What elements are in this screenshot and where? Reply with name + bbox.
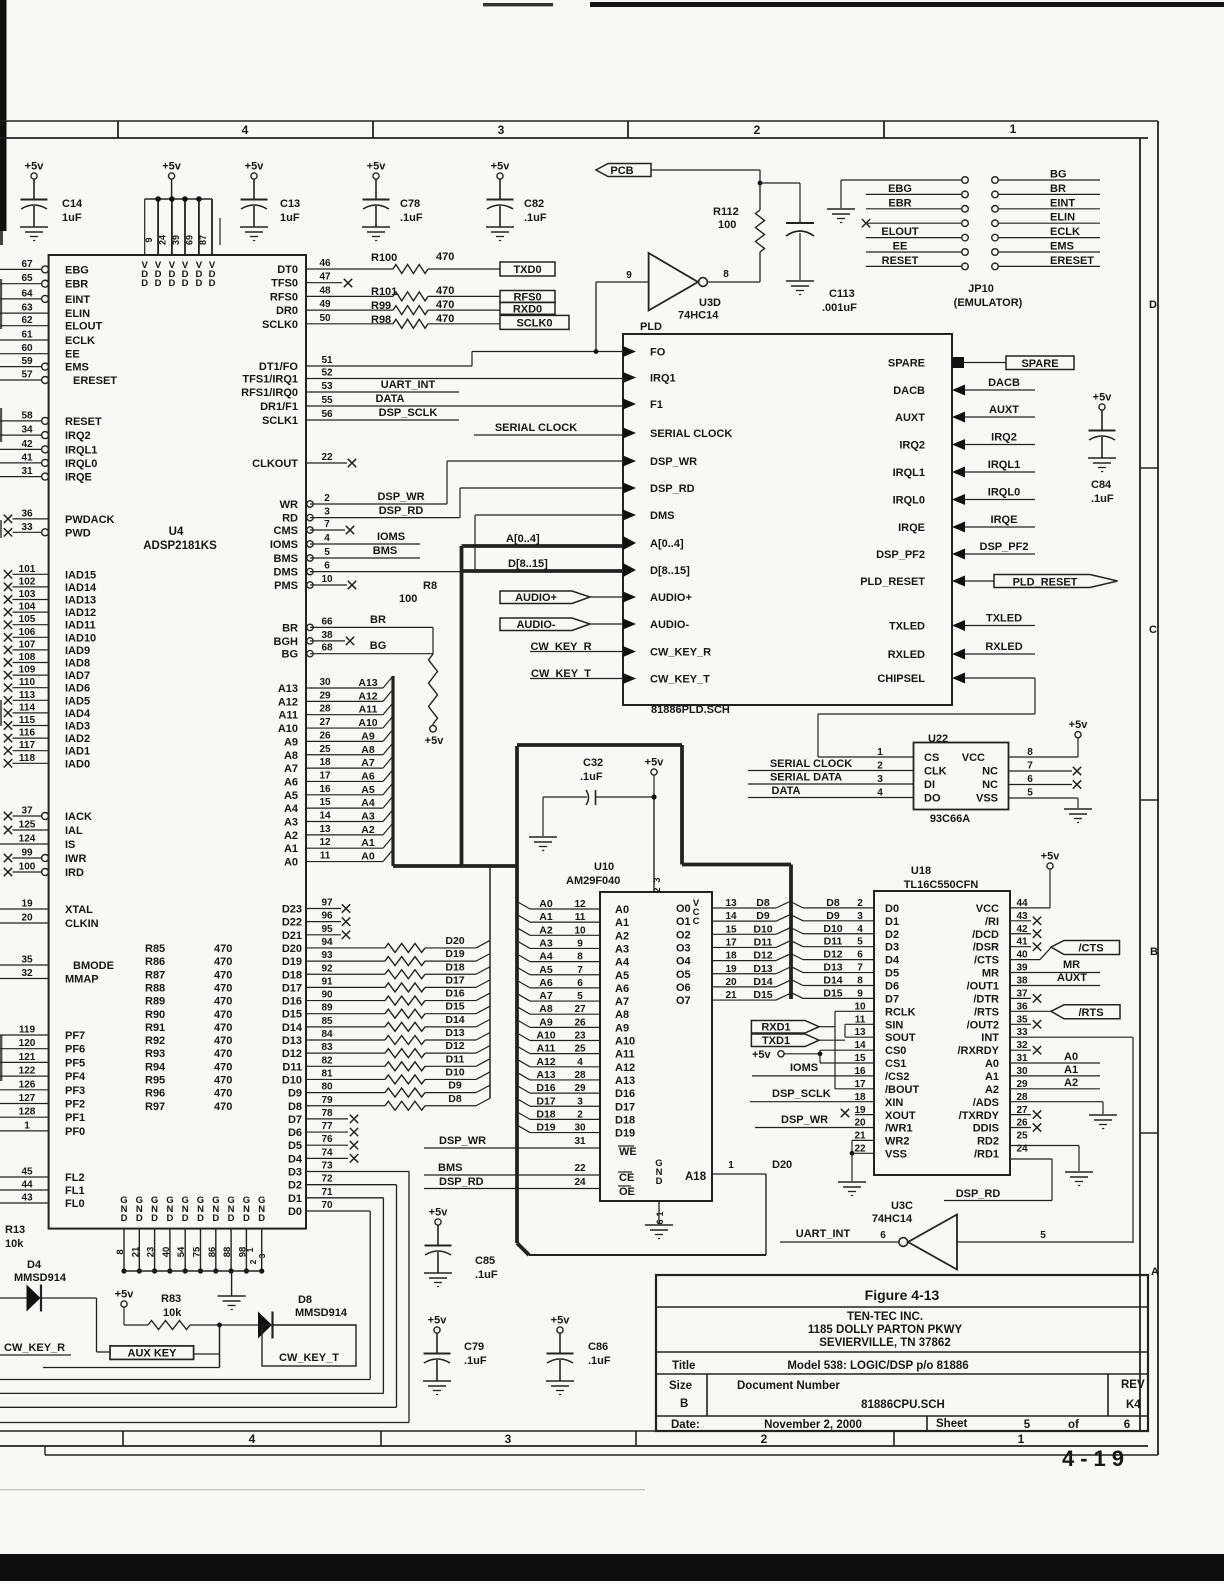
svg-text:A8: A8 — [615, 1009, 629, 1021]
svg-text:D13: D13 — [753, 963, 772, 975]
svg-text:A4: A4 — [284, 803, 299, 815]
svg-text:A8: A8 — [539, 1003, 553, 1015]
svg-text:113: 113 — [19, 690, 36, 701]
svg-text:DSP_WR: DSP_WR — [439, 1135, 486, 1147]
svg-text:A2: A2 — [361, 824, 375, 836]
svg-text:41: 41 — [1016, 937, 1028, 948]
svg-text:UART_INT: UART_INT — [796, 1228, 851, 1240]
svg-text:2: 2 — [857, 898, 863, 909]
svg-text:66: 66 — [321, 616, 333, 627]
svg-text:R86: R86 — [145, 956, 165, 968]
svg-text:XTAL: XTAL — [65, 904, 93, 916]
svg-text:D0: D0 — [885, 903, 899, 915]
svg-text:81886CPU.SCH: 81886CPU.SCH — [861, 1399, 945, 1411]
svg-text:U3D: U3D — [699, 297, 721, 309]
svg-text:DSP_RD: DSP_RD — [650, 483, 695, 495]
svg-text:PF5: PF5 — [65, 1057, 85, 1069]
svg-text:100: 100 — [19, 862, 36, 873]
svg-text:6: 6 — [324, 561, 330, 572]
svg-text:81: 81 — [321, 1068, 333, 1079]
svg-text:5: 5 — [577, 991, 583, 1002]
svg-text:40: 40 — [161, 1247, 172, 1258]
svg-text:R89: R89 — [145, 996, 165, 1008]
svg-text:K4: K4 — [1126, 1399, 1141, 1411]
svg-text:34: 34 — [21, 425, 33, 436]
svg-text:RESET: RESET — [882, 255, 919, 267]
svg-text:CLK: CLK — [924, 766, 947, 778]
svg-text:RXLED: RXLED — [888, 649, 925, 661]
svg-text:A0: A0 — [615, 904, 629, 916]
svg-text:C84: C84 — [1091, 479, 1112, 491]
svg-text:A7: A7 — [615, 996, 629, 1008]
svg-text:O0: O0 — [676, 903, 691, 915]
svg-text:38: 38 — [1016, 975, 1028, 986]
svg-text:D15: D15 — [445, 1001, 464, 1013]
svg-text:NC: NC — [982, 766, 998, 778]
svg-text:D11: D11 — [446, 1053, 465, 1065]
svg-text:A11: A11 — [359, 704, 378, 716]
svg-text:2: 2 — [652, 887, 662, 892]
svg-text:A8: A8 — [284, 750, 298, 762]
svg-text:D: D — [258, 1213, 265, 1224]
svg-text:110: 110 — [19, 677, 36, 688]
svg-text:7: 7 — [857, 963, 863, 974]
svg-text:31: 31 — [21, 466, 33, 477]
svg-text:D: D — [209, 278, 216, 289]
svg-text:65: 65 — [21, 273, 33, 284]
svg-text:IAD6: IAD6 — [65, 683, 90, 695]
svg-text:C: C — [693, 916, 700, 927]
svg-text:A3: A3 — [284, 817, 298, 829]
svg-text:AUX KEY: AUX KEY — [128, 1348, 178, 1360]
svg-text:81886PLD.SCH: 81886PLD.SCH — [651, 704, 730, 716]
svg-text:.1uF: .1uF — [588, 1355, 611, 1367]
svg-text:A11: A11 — [278, 710, 298, 722]
svg-text:O1: O1 — [676, 916, 691, 928]
svg-text:3: 3 — [257, 1253, 267, 1258]
svg-text:D0: D0 — [288, 1206, 302, 1218]
svg-text:IAD0: IAD0 — [65, 758, 90, 770]
svg-text:IACK: IACK — [65, 811, 92, 823]
svg-text:107: 107 — [19, 639, 36, 650]
svg-text:16: 16 — [319, 784, 331, 795]
svg-text:CHIPSEL: CHIPSEL — [877, 673, 925, 685]
svg-text:1uF: 1uF — [62, 212, 82, 224]
svg-text:D: D — [212, 1213, 219, 1224]
svg-text:+5v: +5v — [491, 161, 511, 173]
svg-text:VCC: VCC — [976, 903, 999, 915]
svg-text:94: 94 — [321, 937, 333, 948]
svg-text:470: 470 — [214, 982, 232, 994]
svg-text:/TXRDY: /TXRDY — [959, 1110, 1000, 1122]
svg-text:127: 127 — [19, 1093, 36, 1104]
svg-text:D9: D9 — [288, 1088, 302, 1100]
svg-text:U3C: U3C — [891, 1200, 913, 1212]
svg-text:D10: D10 — [282, 1074, 302, 1086]
svg-text:CW_KEY_T: CW_KEY_T — [650, 674, 710, 686]
svg-text:Date:: Date: — [671, 1419, 700, 1431]
svg-text:/DTR: /DTR — [973, 993, 999, 1005]
svg-text:35: 35 — [1016, 1014, 1028, 1025]
svg-text:D12: D12 — [823, 949, 842, 961]
svg-text:EINT: EINT — [1050, 197, 1075, 209]
svg-text:84: 84 — [321, 1029, 333, 1040]
svg-text:D10: D10 — [445, 1066, 464, 1078]
svg-text:D: D — [1149, 299, 1157, 311]
svg-text:DSP_PF2: DSP_PF2 — [876, 549, 925, 561]
svg-text:24: 24 — [574, 1177, 586, 1188]
svg-text:/OUT2: /OUT2 — [967, 1019, 999, 1031]
svg-text:/RTS: /RTS — [974, 1006, 999, 1018]
svg-text:80: 80 — [321, 1082, 333, 1093]
svg-text:27: 27 — [574, 1004, 586, 1015]
svg-text:124: 124 — [19, 834, 36, 845]
svg-text:22: 22 — [321, 452, 333, 463]
svg-text:23: 23 — [574, 1031, 586, 1042]
svg-text:A1: A1 — [539, 911, 553, 923]
svg-text:MR: MR — [982, 968, 999, 980]
svg-text:VSS: VSS — [976, 793, 998, 805]
svg-text:RFS1/IRQ0: RFS1/IRQ0 — [241, 387, 298, 399]
svg-text:OE: OE — [619, 1186, 635, 1198]
svg-text:CE: CE — [619, 1172, 634, 1184]
svg-text:42: 42 — [1016, 924, 1028, 935]
svg-text:92: 92 — [321, 963, 333, 974]
svg-text:D18: D18 — [536, 1108, 555, 1120]
svg-text:86: 86 — [207, 1247, 218, 1258]
svg-text:MMAP: MMAP — [65, 974, 99, 986]
svg-text:D15: D15 — [823, 987, 842, 999]
svg-text:30: 30 — [319, 677, 331, 688]
svg-text:MMSD914: MMSD914 — [14, 1272, 67, 1284]
svg-text:+5v: +5v — [25, 161, 45, 173]
svg-text:67: 67 — [21, 259, 33, 270]
svg-text:IRQL1: IRQL1 — [988, 459, 1020, 471]
svg-text:/RD1: /RD1 — [974, 1149, 999, 1161]
svg-text:A3: A3 — [539, 937, 553, 949]
svg-text:D: D — [155, 278, 162, 289]
svg-text:22: 22 — [574, 1163, 586, 1174]
svg-text:O3: O3 — [676, 942, 691, 954]
svg-text:A4: A4 — [361, 797, 375, 809]
svg-text:7: 7 — [1027, 761, 1033, 772]
svg-text:79: 79 — [321, 1095, 333, 1106]
svg-text:IRQL0: IRQL0 — [893, 495, 925, 507]
svg-text:A13: A13 — [358, 677, 377, 689]
svg-text:470: 470 — [436, 299, 454, 311]
svg-text:470: 470 — [214, 1035, 232, 1047]
svg-text:10: 10 — [574, 925, 586, 936]
svg-text:A0: A0 — [985, 1058, 999, 1070]
svg-text:D2: D2 — [885, 929, 899, 941]
svg-text:A2: A2 — [1064, 1077, 1078, 1089]
svg-text:A11: A11 — [537, 1043, 556, 1055]
svg-text:D21: D21 — [282, 930, 302, 942]
svg-text:BG: BG — [1050, 169, 1067, 181]
svg-text:/RI: /RI — [985, 916, 999, 928]
svg-text:10: 10 — [321, 574, 333, 585]
svg-text:470: 470 — [214, 1022, 232, 1034]
svg-text:99: 99 — [21, 848, 33, 859]
svg-text:U18: U18 — [911, 865, 931, 877]
svg-text:93: 93 — [321, 950, 333, 961]
svg-text:A7: A7 — [361, 757, 375, 769]
svg-text:R99: R99 — [371, 300, 391, 312]
svg-text:+5v: +5v — [1093, 392, 1113, 404]
svg-text:14: 14 — [725, 911, 737, 922]
svg-text:C32: C32 — [583, 757, 603, 769]
svg-text:13: 13 — [319, 824, 331, 835]
svg-text:SERIAL CLOCK: SERIAL CLOCK — [770, 758, 852, 770]
svg-text:PF7: PF7 — [65, 1030, 85, 1042]
svg-text:D4: D4 — [27, 1259, 42, 1271]
svg-text:45: 45 — [21, 1167, 33, 1178]
svg-text:D4: D4 — [288, 1153, 303, 1165]
svg-text:.1uF: .1uF — [1091, 493, 1114, 505]
svg-text:A6: A6 — [284, 776, 298, 788]
svg-text:120: 120 — [19, 1038, 36, 1049]
svg-text:48: 48 — [319, 285, 331, 296]
svg-text:EINT: EINT — [65, 294, 90, 306]
svg-text:4-19: 4-19 — [1062, 1446, 1130, 1471]
svg-text:IAD15: IAD15 — [65, 569, 96, 581]
svg-text:+5v: +5v — [162, 161, 182, 173]
svg-text:R97: R97 — [145, 1101, 165, 1113]
svg-text:96: 96 — [321, 911, 333, 922]
svg-text:D9: D9 — [756, 910, 770, 922]
svg-text:SPARE: SPARE — [1021, 358, 1058, 370]
svg-text:DI: DI — [924, 779, 935, 791]
svg-text:32: 32 — [21, 968, 33, 979]
svg-text:IRQ2: IRQ2 — [899, 440, 925, 452]
svg-text:EBG: EBG — [65, 264, 89, 276]
svg-text:90: 90 — [321, 990, 333, 1001]
svg-text:33: 33 — [1016, 1027, 1028, 1038]
svg-text:+5v: +5v — [752, 1049, 772, 1061]
svg-text:IRQL0: IRQL0 — [988, 487, 1020, 499]
svg-text:/DCD: /DCD — [972, 929, 999, 941]
svg-text:56: 56 — [321, 409, 333, 420]
svg-text:3: 3 — [877, 774, 883, 785]
svg-text:9: 9 — [577, 938, 583, 949]
svg-text:IRQE: IRQE — [65, 472, 92, 484]
svg-text:4: 4 — [242, 123, 249, 137]
svg-text:TFS0: TFS0 — [271, 278, 298, 290]
svg-text:/BOUT: /BOUT — [885, 1084, 920, 1096]
svg-text:58: 58 — [21, 410, 33, 421]
svg-text:/CS2: /CS2 — [885, 1071, 909, 1083]
svg-text:21: 21 — [130, 1246, 141, 1257]
svg-text:93C66A: 93C66A — [930, 813, 970, 825]
svg-text:36: 36 — [1016, 1001, 1028, 1012]
svg-text:121: 121 — [19, 1052, 36, 1063]
svg-text:AUDIO+: AUDIO+ — [650, 592, 692, 604]
svg-text:RCLK: RCLK — [885, 1006, 916, 1018]
svg-text:EMS: EMS — [65, 362, 89, 374]
svg-text:ADSP2181KS: ADSP2181KS — [143, 540, 217, 552]
svg-text:D13: D13 — [445, 1027, 464, 1039]
svg-text:20: 20 — [725, 977, 737, 988]
svg-text:/DSR: /DSR — [973, 942, 999, 954]
svg-text:1: 1 — [24, 1120, 30, 1131]
svg-text:D14: D14 — [282, 1022, 303, 1034]
svg-text:D9: D9 — [826, 910, 840, 922]
svg-text:of: of — [1068, 1419, 1079, 1431]
svg-text:61: 61 — [21, 330, 33, 341]
svg-text:TXLED: TXLED — [889, 621, 925, 633]
svg-text:CW_KEY_R: CW_KEY_R — [650, 647, 711, 659]
svg-text:R90: R90 — [145, 1009, 165, 1021]
svg-text:6: 6 — [880, 1230, 886, 1241]
svg-text:9: 9 — [144, 237, 154, 242]
svg-text:35: 35 — [21, 955, 33, 966]
svg-text:DSP_RD: DSP_RD — [439, 1176, 484, 1188]
svg-text:53: 53 — [321, 381, 333, 392]
svg-text:IAD2: IAD2 — [65, 733, 90, 745]
svg-text:+5v: +5v — [425, 735, 445, 747]
svg-text:C86: C86 — [588, 1341, 608, 1353]
svg-text:D8: D8 — [298, 1294, 312, 1306]
svg-text:F1: F1 — [650, 399, 663, 411]
svg-text:D12: D12 — [445, 1040, 464, 1052]
svg-text:17: 17 — [725, 937, 737, 948]
svg-text:5: 5 — [1024, 1419, 1031, 1431]
svg-text:D4: D4 — [885, 955, 900, 967]
svg-text:87: 87 — [198, 235, 208, 245]
svg-text:74HC14: 74HC14 — [678, 310, 719, 322]
svg-text:O5: O5 — [676, 969, 691, 981]
svg-text:31: 31 — [574, 1136, 586, 1147]
svg-text:D23: D23 — [282, 904, 302, 916]
svg-text:.001uF: .001uF — [822, 302, 857, 314]
svg-text:IAD4: IAD4 — [65, 708, 91, 720]
svg-text:+5v: +5v — [367, 161, 387, 173]
svg-text:D20: D20 — [282, 943, 302, 955]
svg-text:3: 3 — [324, 507, 330, 518]
svg-text:63: 63 — [21, 303, 33, 314]
svg-text:BG: BG — [282, 649, 299, 661]
svg-text:O2: O2 — [676, 929, 691, 941]
svg-text:D11: D11 — [754, 936, 773, 948]
svg-text:470: 470 — [214, 1048, 232, 1060]
svg-text:15: 15 — [725, 924, 737, 935]
svg-text:A1: A1 — [1064, 1064, 1078, 1076]
svg-text:D17: D17 — [282, 982, 302, 994]
svg-text:29: 29 — [574, 1083, 586, 1094]
svg-text:50: 50 — [319, 313, 331, 324]
svg-text:PF1: PF1 — [65, 1112, 85, 1124]
svg-text:EMS: EMS — [1050, 241, 1074, 253]
svg-text:A5: A5 — [539, 964, 553, 976]
svg-text:8: 8 — [115, 1249, 126, 1254]
svg-text:IAD7: IAD7 — [65, 670, 90, 682]
svg-text:DDIS: DDIS — [973, 1123, 999, 1135]
svg-text:IOMS: IOMS — [790, 1062, 818, 1074]
svg-text:8: 8 — [577, 952, 583, 963]
svg-text:R93: R93 — [145, 1048, 165, 1060]
svg-text:PF4: PF4 — [65, 1071, 86, 1083]
svg-text:DATA: DATA — [376, 393, 405, 405]
svg-text:D15: D15 — [753, 989, 772, 1001]
svg-text:IRQE: IRQE — [898, 522, 925, 534]
svg-text:D20: D20 — [772, 1159, 792, 1171]
svg-text:O6: O6 — [676, 982, 691, 994]
svg-text:XIN: XIN — [885, 1097, 903, 1109]
svg-text:470: 470 — [436, 285, 454, 297]
svg-text:ELOUT: ELOUT — [881, 226, 919, 238]
svg-text:57: 57 — [21, 370, 33, 381]
svg-text:54: 54 — [176, 1246, 187, 1257]
svg-text:FL1: FL1 — [65, 1185, 85, 1197]
svg-text:PCB: PCB — [610, 165, 633, 177]
svg-text:A10: A10 — [615, 1036, 635, 1048]
svg-text:11: 11 — [320, 851, 331, 862]
svg-text:BR: BR — [370, 614, 386, 626]
svg-text:97: 97 — [321, 898, 333, 909]
svg-text:42: 42 — [21, 439, 33, 450]
svg-text:WR2: WR2 — [885, 1136, 909, 1148]
svg-text:REV: REV — [1121, 1379, 1145, 1391]
svg-text:39: 39 — [1016, 963, 1028, 974]
svg-text:470: 470 — [214, 1101, 232, 1113]
svg-text:SEVIERVILLE, TN 37862: SEVIERVILLE, TN 37862 — [819, 1337, 950, 1349]
svg-text:A[0..4]: A[0..4] — [506, 533, 540, 545]
svg-text:74: 74 — [321, 1147, 333, 1158]
svg-text:R13: R13 — [5, 1224, 25, 1236]
svg-text:VSS: VSS — [885, 1149, 907, 1161]
svg-text:D8: D8 — [288, 1101, 302, 1113]
svg-text:A4: A4 — [615, 957, 630, 969]
svg-text:BR: BR — [282, 622, 298, 634]
svg-text:SERIAL CLOCK: SERIAL CLOCK — [650, 428, 732, 440]
svg-text:D12: D12 — [753, 950, 772, 962]
svg-text:B: B — [1150, 946, 1158, 958]
svg-text:RFS0: RFS0 — [270, 291, 298, 303]
svg-text:117: 117 — [19, 740, 36, 751]
svg-text:.1uF: .1uF — [464, 1355, 487, 1367]
svg-text:IWR: IWR — [65, 853, 86, 865]
svg-text:Model 538: LOGIC/DSP p/o 81886: Model 538: LOGIC/DSP p/o 81886 — [787, 1360, 968, 1372]
svg-text:EE: EE — [893, 241, 908, 253]
svg-text:D22: D22 — [282, 917, 302, 929]
svg-text:+5v: +5v — [428, 1315, 448, 1327]
svg-text:.1uF: .1uF — [580, 771, 603, 783]
svg-text:A13: A13 — [536, 1069, 555, 1081]
svg-text:D19: D19 — [282, 956, 302, 968]
svg-text:D14: D14 — [445, 1014, 464, 1026]
svg-text:6: 6 — [1027, 774, 1033, 785]
svg-text:5: 5 — [1040, 1230, 1046, 1241]
svg-text:25: 25 — [319, 744, 331, 755]
svg-text:EBR: EBR — [888, 197, 911, 209]
svg-text:AM29F040: AM29F040 — [566, 875, 620, 887]
svg-text:2: 2 — [877, 761, 883, 772]
svg-text:B: B — [680, 1398, 688, 1410]
svg-text:14: 14 — [319, 811, 331, 822]
svg-text:470: 470 — [436, 313, 454, 325]
svg-text:3: 3 — [577, 1096, 583, 1107]
svg-text:AUDIO-: AUDIO- — [516, 619, 555, 631]
svg-text:1: 1 — [245, 1247, 255, 1252]
svg-text:D: D — [141, 278, 148, 289]
svg-text:D16: D16 — [445, 988, 464, 1000]
svg-text:6: 6 — [577, 978, 583, 989]
svg-text:A11: A11 — [615, 1049, 635, 1061]
svg-text:IAD5: IAD5 — [65, 695, 90, 707]
svg-text:106: 106 — [19, 627, 36, 638]
svg-text:A12: A12 — [536, 1056, 555, 1068]
svg-text:RD: RD — [282, 513, 298, 525]
